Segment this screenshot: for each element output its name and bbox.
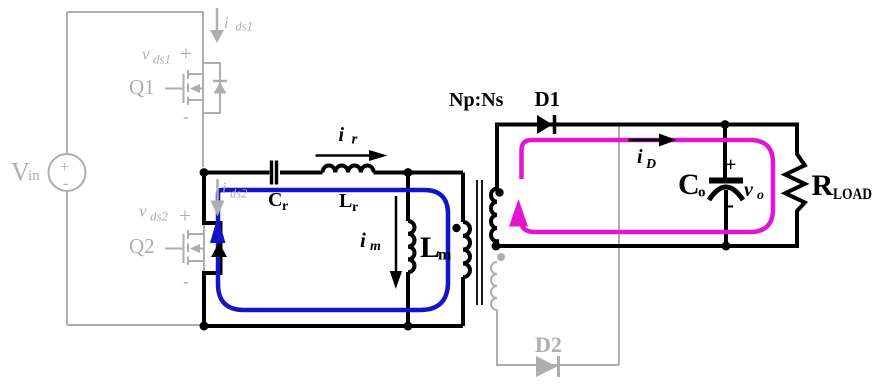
- winding secondary lower (gray): [491, 262, 497, 310]
- svg-text:+: +: [725, 154, 736, 176]
- svg-text:+: +: [180, 42, 192, 66]
- svg-text:-: -: [183, 106, 189, 126]
- transformer primary polarity dot: [452, 224, 460, 232]
- resistor RLOAD: [785, 154, 805, 211]
- svg-text:o: o: [698, 185, 706, 201]
- svg-text:LOAD: LOAD: [833, 186, 872, 203]
- current arrow blue up: [210, 216, 226, 243]
- node Co top: [721, 120, 730, 129]
- transistor Q2 symbol: [188, 233, 203, 235]
- svg-text:L: L: [420, 231, 440, 264]
- wire Cr to Lr: [280, 171, 323, 175]
- svg-text:-: -: [183, 271, 189, 291]
- wire gray bottom rail: [67, 324, 204, 326]
- svg-text:m: m: [438, 247, 452, 264]
- transformer secondary polarity dot: [495, 188, 503, 196]
- wire tank top: [204, 171, 270, 175]
- wire output top: [495, 125, 797, 156]
- transistor Q1 symbol: [188, 73, 203, 75]
- svg-text:r: r: [352, 132, 358, 148]
- svg-text:C: C: [268, 189, 282, 211]
- svg-text:ds2: ds2: [230, 187, 247, 201]
- wire gray left rail upper: [66, 12, 68, 154]
- wire gray left rail lower: [66, 191, 68, 325]
- current arrow i_ds1: [210, 8, 224, 43]
- inductor Lm wire: [406, 173, 410, 222]
- svg-text:+: +: [60, 159, 69, 176]
- wire gray top rail: [67, 12, 203, 167]
- svg-text:D1: D1: [535, 87, 561, 111]
- svg-text:Q2: Q2: [129, 234, 155, 258]
- svg-text:ds1: ds1: [153, 52, 171, 67]
- svg-text:v: v: [142, 45, 150, 64]
- svg-text:m: m: [370, 239, 381, 254]
- wire Lr to primary: [374, 171, 464, 175]
- transformer secondary upper winding: [491, 125, 497, 246]
- node Co bottom: [722, 242, 731, 251]
- transistor Q2 arrow: [190, 244, 200, 253]
- svg-text:Np:Ns: Np:Ns: [449, 89, 504, 111]
- svg-text:D2: D2: [535, 332, 562, 357]
- winding D2-side secondary polarity dot: [497, 253, 505, 261]
- wire tank right / primary winding lead: [461, 173, 465, 223]
- node tank bottom-left: [200, 322, 209, 331]
- diode Q1 body diode cathode bar: [213, 80, 227, 83]
- capacitor Co top plate: [709, 178, 743, 184]
- current arrow i_r: [316, 150, 388, 161]
- svg-text:R: R: [812, 169, 834, 202]
- transformer primary winding: [463, 222, 470, 277]
- wire gray rail behind Q2: [203, 225, 205, 271]
- capacitor Cr plates: [270, 161, 273, 185]
- current arrow black up: [211, 243, 227, 258]
- transistor Q1 body-diode branch wire: [203, 63, 220, 113]
- svg-text:-: -: [726, 192, 734, 218]
- svg-text:i: i: [339, 124, 345, 146]
- svg-text:r: r: [282, 199, 288, 214]
- wire D2 branch: [497, 310, 619, 365]
- svg-text:-: -: [63, 175, 68, 192]
- svg-text:i: i: [360, 228, 366, 252]
- diode D1 cathode bar: [553, 115, 557, 134]
- wire blue loop: [218, 190, 448, 310]
- diode D1: [537, 115, 553, 134]
- svg-text:i: i: [224, 15, 228, 32]
- voltage source Vin: [49, 154, 86, 191]
- node Lm bottom: [404, 322, 413, 331]
- current arrow i_D: [629, 134, 677, 147]
- svg-text:in: in: [28, 168, 40, 184]
- svg-text:ds2: ds2: [150, 209, 169, 224]
- svg-text:i: i: [637, 146, 643, 168]
- inductor Lm coil: [408, 221, 415, 272]
- svg-text:L: L: [339, 190, 352, 212]
- diode Q1 body diode: [214, 83, 227, 94]
- transformer core: [476, 180, 478, 305]
- wire tank left with Q2 jog: [204, 173, 221, 327]
- svg-text:+: +: [179, 204, 191, 228]
- wire output bottom: [496, 210, 797, 246]
- diode D2 cathode bar: [557, 356, 560, 377]
- current arrow magenta up: [509, 199, 528, 227]
- svg-text:i: i: [222, 180, 226, 197]
- current arrow i_m: [390, 196, 402, 289]
- svg-text:o: o: [757, 188, 764, 203]
- svg-text:v: v: [139, 202, 147, 221]
- node tank top-left: [200, 168, 209, 177]
- transistor Q1 arrow: [190, 84, 200, 93]
- svg-text:C: C: [678, 168, 700, 201]
- capacitor Co curved plate: [709, 187, 743, 200]
- wire magenta loop: [522, 140, 774, 232]
- capacitor Co wire top: [723, 125, 727, 179]
- inductor Lr: [323, 165, 374, 172]
- diode D2: [536, 356, 557, 377]
- svg-text:ds1: ds1: [236, 20, 253, 34]
- node Lm top: [404, 168, 413, 177]
- capacitor Co wire bottom: [724, 190, 728, 246]
- wire tank bottom: [204, 324, 463, 328]
- svg-text:D: D: [645, 157, 656, 172]
- svg-text:v: v: [744, 179, 754, 201]
- svg-text:Q1: Q1: [129, 75, 155, 99]
- wire D2 to output: [618, 125, 620, 366]
- current arrow i_ds2: [211, 179, 225, 217]
- node center tap: [492, 242, 501, 251]
- svg-text:r: r: [352, 200, 358, 215]
